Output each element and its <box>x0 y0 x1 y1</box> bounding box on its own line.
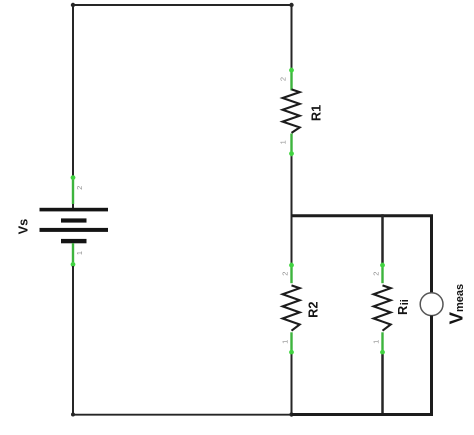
battery Vs <box>40 175 109 267</box>
label R2 <box>306 302 321 318</box>
wire R1 branch lower <box>291 156 293 216</box>
voltmeter Vmeas <box>420 293 443 316</box>
label Vs value <box>15 219 30 235</box>
node bottom-left junction dot <box>71 413 75 417</box>
pin 1 label battery <box>75 251 84 255</box>
svg-text:2: 2 <box>75 186 84 190</box>
pin 2 label Rii <box>372 272 381 276</box>
pin 1 label Rii <box>372 340 381 344</box>
label Rii <box>395 299 411 315</box>
resistor R2 <box>283 263 300 355</box>
pin 2 label battery <box>75 186 84 190</box>
wire left vertical lower <box>72 266 74 415</box>
wire Rii stem lower <box>381 354 384 415</box>
node top-left junction dot <box>71 3 75 7</box>
pin 2 label R1 <box>278 77 287 81</box>
svg-text:1: 1 <box>75 251 84 255</box>
wire R2 stem lower <box>291 354 293 414</box>
wire R2 stem upper <box>291 216 293 264</box>
svg-text:Vs: Vs <box>15 219 30 235</box>
label Vmeas <box>446 284 467 324</box>
wire left vertical upper <box>72 5 74 209</box>
node top-right junction dot <box>289 3 293 7</box>
node R2 bottom junction dot <box>289 412 293 416</box>
svg-text:2: 2 <box>281 272 290 276</box>
pin 1 label R1 <box>278 140 287 144</box>
wire Rii stem upper <box>381 214 384 264</box>
wire top horizontal <box>73 4 292 6</box>
svg-text:2: 2 <box>278 77 287 81</box>
svg-text:R1: R1 <box>309 105 324 121</box>
label R1 <box>309 105 324 121</box>
svg-text:1: 1 <box>281 340 290 344</box>
pin 2 label R2 <box>281 272 290 276</box>
wire bottom left horizontal <box>73 414 292 416</box>
wire right vertical lower and bottom right horizontal <box>292 316 432 415</box>
wire R1 branch upper <box>291 5 293 69</box>
pin 1 label R2 <box>281 340 290 344</box>
svg-text:2: 2 <box>372 272 381 276</box>
svg-text:1: 1 <box>372 340 381 344</box>
resistor R1 <box>283 68 300 157</box>
svg-text:1: 1 <box>278 140 287 144</box>
resistor Rii <box>374 263 391 355</box>
svg-text:R2: R2 <box>306 302 321 318</box>
wire middle horizontal and right vertical upper <box>292 216 432 293</box>
